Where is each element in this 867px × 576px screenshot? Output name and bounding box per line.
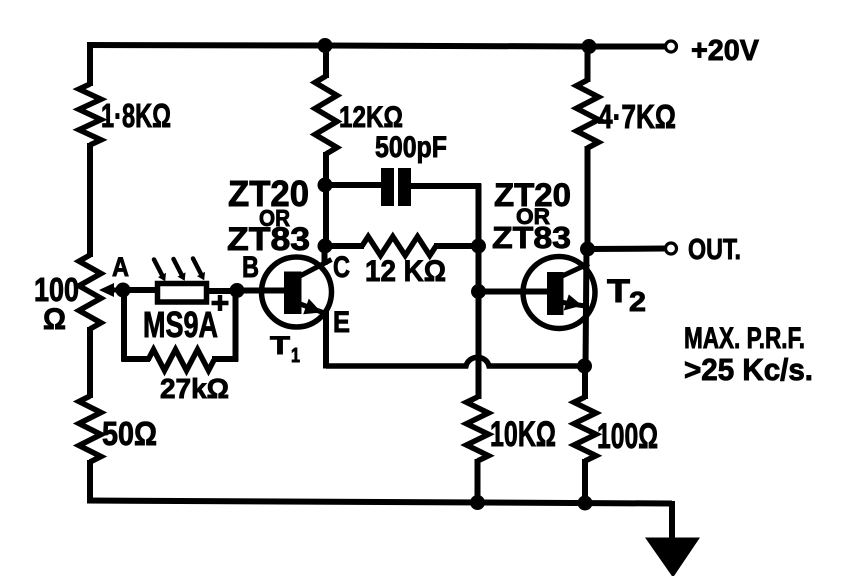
svg-text:1·8KΩ: 1·8KΩ [101, 97, 171, 134]
svg-text:12 KΩ: 12 KΩ [365, 255, 446, 288]
svg-text:B: B [242, 251, 259, 284]
svg-text:C: C [333, 251, 350, 284]
svg-text:4·7KΩ: 4·7KΩ [598, 98, 676, 135]
svg-text:50Ω: 50Ω [102, 415, 157, 452]
svg-text:E: E [333, 306, 350, 339]
svg-text:OUT.: OUT. [688, 234, 741, 266]
svg-text:27kΩ: 27kΩ [160, 373, 229, 404]
svg-text:12KΩ: 12KΩ [339, 101, 403, 134]
svg-text:500pF: 500pF [375, 131, 447, 164]
svg-text:1: 1 [291, 345, 300, 367]
svg-text:Ω: Ω [43, 303, 66, 336]
svg-text:ZT83: ZT83 [227, 221, 310, 257]
svg-text:A: A [112, 252, 129, 282]
svg-text:>25 Kc/s.: >25 Kc/s. [684, 352, 813, 387]
svg-text:ZT83: ZT83 [492, 220, 571, 255]
svg-text:100Ω: 100Ω [597, 417, 658, 456]
svg-text:T: T [270, 332, 290, 360]
svg-text:2: 2 [629, 286, 646, 317]
svg-text:+20V: +20V [691, 35, 760, 67]
svg-text:T: T [607, 273, 631, 309]
svg-text:MS9A: MS9A [143, 304, 218, 345]
svg-text:10KΩ: 10KΩ [490, 415, 556, 454]
svg-text:MAX. P.R.F.: MAX. P.R.F. [684, 322, 805, 355]
